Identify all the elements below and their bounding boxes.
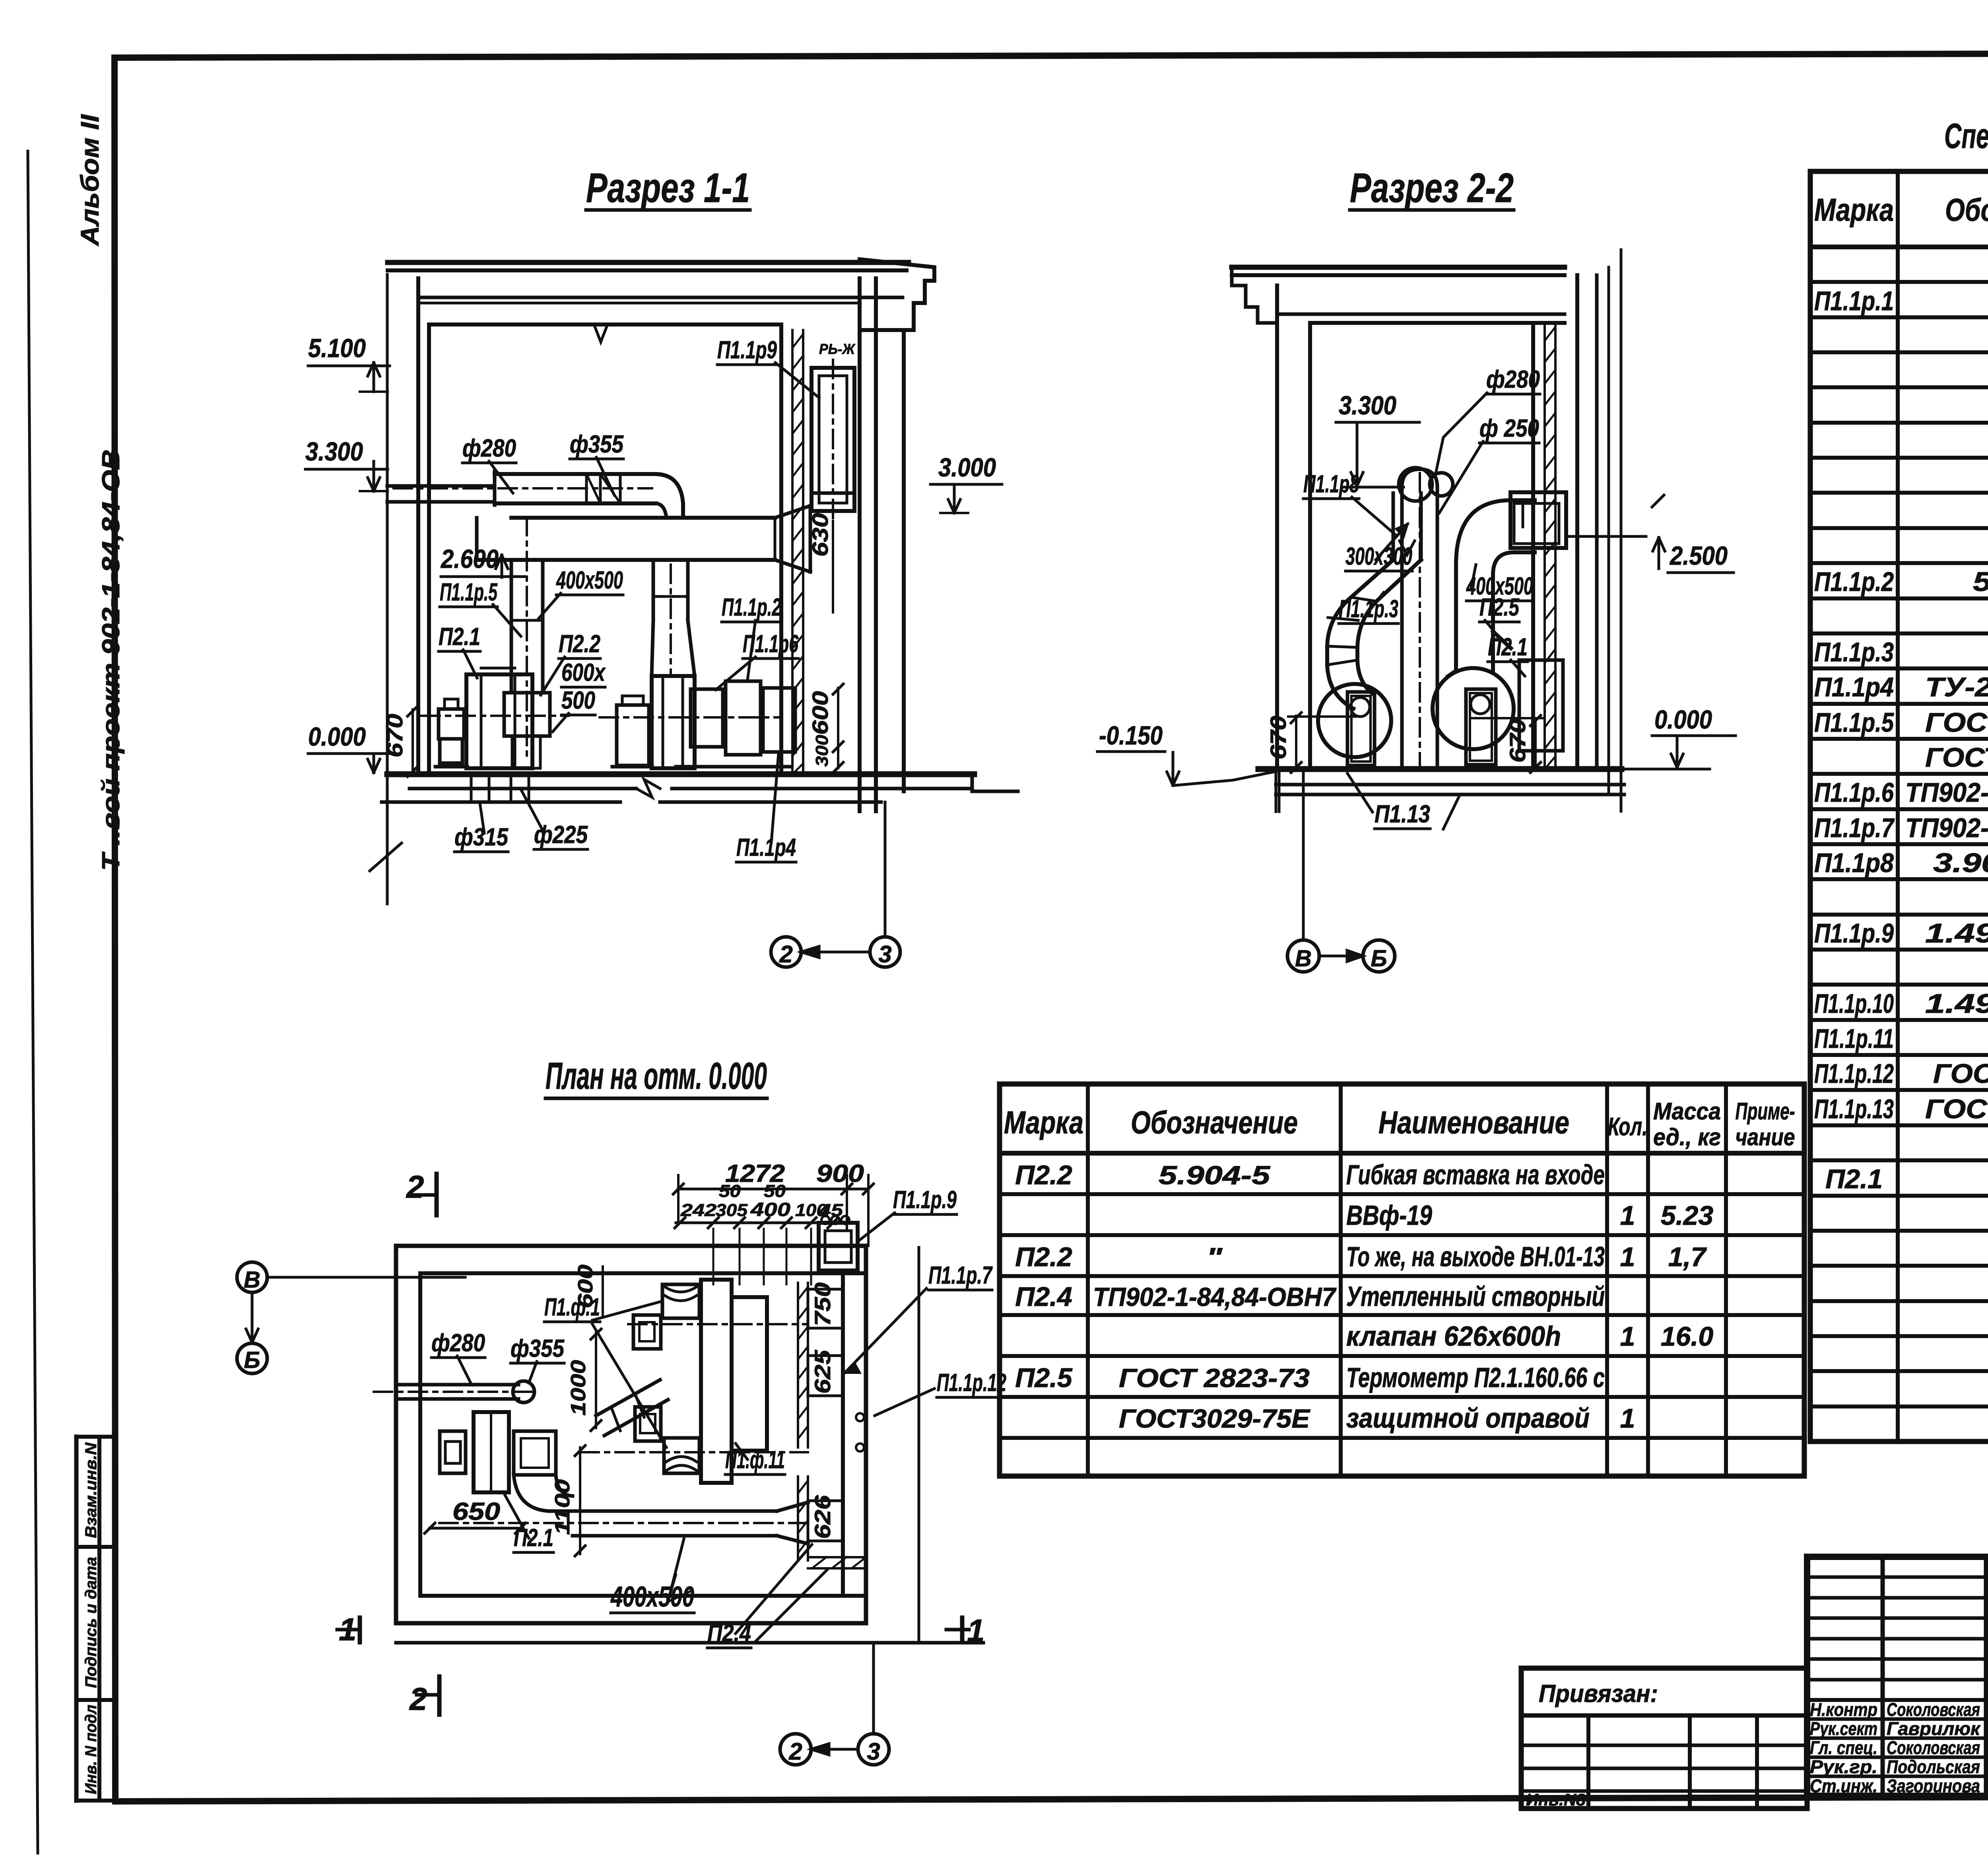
svg-text:защитной оправой: защитной оправой xyxy=(1346,1403,1590,1434)
plan axis circles V B xyxy=(237,1262,267,1292)
svg-text:305: 305 xyxy=(716,1201,748,1220)
plan center unit fan wheels xyxy=(662,1284,699,1318)
svg-text:Спецификация вентиляционных: Спецификация вентиляционных установ ж xyxy=(1944,116,1988,155)
svg-text:400х500: 400х500 xyxy=(610,1581,694,1613)
plan left flex box xyxy=(514,1431,556,1475)
svg-text:ед., кг: ед., кг xyxy=(1653,1124,1721,1150)
r2 left S duct band xyxy=(1327,560,1393,709)
svg-text:ф355: ф355 xyxy=(570,431,624,458)
svg-text:П1.1р.5: П1.1р.5 xyxy=(440,579,498,606)
svg-text:П1.1р.10: П1.1р.10 xyxy=(1814,989,1894,1019)
r1 air intake unit P1.1r9 xyxy=(812,368,854,511)
r1 f355 elbow xyxy=(655,474,683,517)
svg-text:П1.1р.3: П1.1р.3 xyxy=(1339,595,1398,623)
title block left grid verticals xyxy=(1881,1557,1885,1796)
svg-text:1000: 1000 xyxy=(567,1360,590,1416)
r1 section circles 2-3 xyxy=(771,937,801,967)
r1 dim 670 left xyxy=(412,709,414,773)
svg-text:Марка: Марка xyxy=(1004,1105,1083,1140)
svg-text:Кол.: Кол. xyxy=(1608,1112,1648,1141)
svg-text:Инв.N8: Инв.N8 xyxy=(1526,1790,1586,1809)
r2 valve box xyxy=(1510,492,1566,548)
r2 left fan scroll xyxy=(1318,684,1391,757)
svg-text:П1.13: П1.13 xyxy=(1375,800,1430,828)
svg-text:16.0: 16.0 xyxy=(1661,1321,1714,1352)
svg-text:5.904-5: 5.904-5 xyxy=(1973,567,1988,597)
svg-text:ТП902-1-84,84-ОВН6: ТП902-1-84,84-ОВН6 xyxy=(1905,777,1988,808)
svg-text:1: 1 xyxy=(1620,1403,1635,1434)
svg-text:3: 3 xyxy=(867,1738,880,1765)
svg-text:2.600: 2.600 xyxy=(440,544,499,573)
middle table grid xyxy=(997,1084,1002,1476)
svg-text:670: 670 xyxy=(1266,716,1291,760)
svg-text:П1.1р9: П1.1р9 xyxy=(717,336,777,364)
svg-text:1.494-27 В.7: 1.494-27 В.7 xyxy=(1925,918,1988,948)
r1 riser to fan P1.1r.1 xyxy=(652,560,655,620)
svg-text:400: 400 xyxy=(750,1199,791,1220)
r2 right wall xyxy=(1531,323,1535,769)
r1 duct f280 pipe xyxy=(387,484,495,488)
title block left grid horizontals xyxy=(1807,1575,1988,1579)
svg-text:Приме-: Приме- xyxy=(1736,1098,1795,1125)
svg-text:Термометр П2.1.160.66 с: Термометр П2.1.160.66 с xyxy=(1346,1362,1605,1393)
svg-text:670: 670 xyxy=(1505,719,1530,763)
plan top dim row 1 xyxy=(678,1188,868,1191)
r2 right fan motor xyxy=(1466,689,1496,765)
plan section line vertical right xyxy=(918,1247,920,1643)
svg-text:В: В xyxy=(1295,946,1312,971)
plan dim 1000 xyxy=(595,1331,597,1428)
r1 vertical duct joint ticks xyxy=(511,619,543,622)
r1 fan unit P1.1r.1 housing xyxy=(652,676,695,768)
svg-text:П1.1р.13: П1.1р.13 xyxy=(1814,1094,1894,1124)
plan diagonal duct xyxy=(596,1380,668,1436)
svg-text:П1.1р.11: П1.1р.11 xyxy=(1814,1024,1894,1054)
svg-text:5.23: 5.23 xyxy=(1661,1201,1714,1231)
svg-text:П1.1р.3: П1.1р.3 xyxy=(1814,637,1894,667)
r2 dim 670 left xyxy=(1295,716,1297,769)
r1 korob duct P1.1r6 xyxy=(511,516,775,520)
svg-text:1,7: 1,7 xyxy=(1668,1242,1707,1272)
svg-text:П2.1: П2.1 xyxy=(514,1524,553,1552)
r1 dim 600/300 right xyxy=(837,688,839,768)
svg-text:ф225: ф225 xyxy=(534,821,588,849)
plan center unit motors xyxy=(633,1315,661,1349)
svg-text:50: 50 xyxy=(719,1181,741,1201)
title block outer xyxy=(1807,1557,1988,1796)
plan left unit motor xyxy=(440,1431,466,1473)
svg-text:-0.150: -0.150 xyxy=(1099,721,1163,750)
svg-text:750: 750 xyxy=(810,1282,835,1326)
svg-text:2.500: 2.500 xyxy=(1669,541,1728,570)
r2 floor xyxy=(1258,766,1621,772)
r2 right duct 400x500 elbow xyxy=(1456,500,1535,670)
spec table grid xyxy=(1808,171,1813,1441)
svg-text:Инв. N подл: Инв. N подл xyxy=(82,1705,100,1794)
svg-text:0.000: 0.000 xyxy=(1654,705,1712,734)
svg-text:Альбом II: Альбом II xyxy=(76,114,104,247)
svg-text:600х: 600х xyxy=(561,659,606,686)
plan air intake P1.1r9 xyxy=(819,1223,858,1270)
svg-text:П1.1р.7: П1.1р.7 xyxy=(928,1262,993,1289)
svg-text:Взам.инв.N: Взам.инв.N xyxy=(82,1442,100,1538)
r1 floor pipe stubs f315 f225 xyxy=(471,774,489,802)
svg-text:Разрез 1-1: Разрез 1-1 xyxy=(586,165,750,211)
r1 vertical duct 400x500 xyxy=(510,560,513,693)
r2 left wall xyxy=(1275,286,1279,769)
sheet outer paper edge left xyxy=(28,151,38,1853)
r1 korob transition to wall xyxy=(775,506,810,572)
svg-text:2: 2 xyxy=(779,941,792,967)
plan section circles 2-3 bottom xyxy=(780,1734,811,1765)
r1 line from circle3 to floor xyxy=(884,802,887,937)
svg-text:Ст.инж.: Ст.инж. xyxy=(1810,1776,1877,1796)
r1 right cornice xyxy=(860,259,934,330)
svg-text:П1.1р8: П1.1р8 xyxy=(1814,848,1894,878)
svg-text:П2.1: П2.1 xyxy=(1825,1164,1883,1194)
svg-text:300: 300 xyxy=(812,734,832,767)
svg-text:650: 650 xyxy=(452,1498,500,1525)
plan elbow down to duct xyxy=(514,1475,549,1511)
plan left unit fan xyxy=(474,1412,509,1492)
svg-text:1.494-27 В.1: 1.494-27 В.1 xyxy=(1925,989,1988,1019)
svg-text:3.300: 3.300 xyxy=(305,437,363,466)
svg-text:3.904-18 В1: 3.904-18 В1 xyxy=(1933,848,1988,878)
svg-text:П2.5: П2.5 xyxy=(1015,1363,1073,1393)
svg-text:Разрез 2-2: Разрез 2-2 xyxy=(1350,165,1514,211)
svg-text:3.300: 3.300 xyxy=(1339,390,1396,420)
privyazan box xyxy=(1521,1668,1807,1809)
svg-text:П1.1р4: П1.1р4 xyxy=(1814,672,1894,702)
svg-text:Гл. спец.: Гл. спец. xyxy=(1810,1737,1877,1758)
svg-text:П2.1: П2.1 xyxy=(439,623,480,651)
svg-text:Обозначение: Обозначение xyxy=(1131,1105,1298,1140)
svg-text:РЬ-Ж: РЬ-Ж xyxy=(819,341,856,357)
r2 left fan motor xyxy=(1347,692,1375,765)
svg-text:Загоринова: Загоринова xyxy=(1887,1776,1980,1796)
svg-text:П2.4: П2.4 xyxy=(1015,1282,1072,1312)
plan wall openings 750 625 626 xyxy=(808,1289,843,1328)
svg-text:ф280: ф280 xyxy=(462,435,516,462)
svg-text:Масса: Масса xyxy=(1653,1098,1721,1125)
svg-text:Наименование: Наименование xyxy=(1378,1105,1569,1140)
r2 dim 670 right xyxy=(1534,719,1537,769)
r2 axis circles V-B xyxy=(1287,940,1319,972)
frame border bottom xyxy=(115,1796,1988,1801)
svg-text:Утепленный створный: Утепленный створный xyxy=(1346,1281,1605,1312)
r1 left wall columns xyxy=(416,278,420,774)
svg-text:П1.ф.1: П1.ф.1 xyxy=(544,1294,600,1321)
plan line circle3 up xyxy=(872,1643,875,1734)
plan outer walls xyxy=(396,1244,866,1248)
svg-text:Рук.сект: Рук.сект xyxy=(1810,1718,1877,1739)
svg-text:П1.1р.5: П1.1р.5 xyxy=(1814,707,1894,738)
plan lower exterior line xyxy=(396,1641,983,1645)
svg-text:ВВф-19: ВВф-19 xyxy=(1346,1200,1432,1231)
r1 right wall xyxy=(779,324,783,774)
svg-text:2: 2 xyxy=(409,1681,427,1717)
svg-text:П1.1р.6: П1.1р.6 xyxy=(1814,777,1894,808)
svg-text:ф280: ф280 xyxy=(431,1329,485,1357)
svg-text:В: В xyxy=(244,1267,260,1293)
r2 line circle V to floor xyxy=(1302,769,1305,940)
svg-text:Соколовская: Соколовская xyxy=(1887,1737,1980,1758)
svg-text:ГОСТ 8509-72*: ГОСТ 8509-72* xyxy=(1925,1094,1988,1124)
r1 fan unit P2.1 motor xyxy=(439,709,464,739)
r1 left dimension line xyxy=(386,274,389,904)
r2 roof slab xyxy=(1232,265,1565,270)
svg-text:П1.1р4: П1.1р4 xyxy=(736,834,796,861)
svg-text:П2.5: П2.5 xyxy=(1479,594,1520,621)
r2 branch duct P1.1r8 xyxy=(1392,493,1395,560)
svg-text:Гибкая вставка на входе: Гибкая вставка на входе xyxy=(1346,1159,1605,1190)
svg-text:П1.1р.9: П1.1р.9 xyxy=(893,1186,957,1214)
r1 flex insert box P2.2 xyxy=(504,693,550,736)
svg-text:Подольская: Подольская xyxy=(1887,1756,1980,1777)
plan centerlines xyxy=(628,1323,808,1325)
svg-text:П1.1р.12: П1.1р.12 xyxy=(1814,1059,1894,1089)
svg-text:Гаврилюк: Гаврилюк xyxy=(1887,1718,1981,1739)
svg-text:Марка: Марка xyxy=(1814,192,1894,227)
svg-text:": " xyxy=(1206,1242,1223,1272)
left margin stamp column table xyxy=(74,1437,79,1801)
svg-text:чание: чание xyxy=(1736,1124,1795,1150)
svg-text:500: 500 xyxy=(561,687,595,714)
svg-text:Привязан:: Привязан: xyxy=(1539,1680,1658,1708)
svg-text:П2.2: П2.2 xyxy=(1015,1160,1072,1190)
svg-text:1: 1 xyxy=(1620,1242,1635,1272)
svg-text:ф 250: ф 250 xyxy=(1479,415,1539,442)
svg-text:ф315: ф315 xyxy=(454,824,509,851)
svg-text:ф355: ф355 xyxy=(511,1335,565,1362)
r2 pipe top circles xyxy=(1399,468,1432,501)
svg-text:50: 50 xyxy=(764,1181,786,1201)
plan top dim row 2 xyxy=(676,1222,835,1224)
svg-text:1100: 1100 xyxy=(551,1479,574,1535)
r1 duct f355 xyxy=(495,472,655,476)
svg-text:Соколовская: Соколовская xyxy=(1887,1699,1980,1720)
svg-text:0.000: 0.000 xyxy=(308,722,366,751)
svg-text:ТУ-22-4334-78: ТУ-22-4334-78 xyxy=(1925,672,1988,702)
svg-text:ГОСТ3029-75Е: ГОСТ3029-75Е xyxy=(1119,1404,1310,1433)
svg-text:ГОСТ 3029-75Е: ГОСТ 3029-75Е xyxy=(1925,742,1988,773)
svg-text:П1.1р.1: П1.1р.1 xyxy=(1814,286,1894,316)
r2 right fan scroll xyxy=(1433,668,1514,749)
svg-text:Подпись и дата: Подпись и дата xyxy=(82,1557,100,1688)
svg-text:клапан 626х600h: клапан 626х600h xyxy=(1346,1321,1561,1352)
plan dim 1100 xyxy=(579,1447,581,1554)
plan supply pipe left xyxy=(396,1383,518,1387)
svg-text:5.100: 5.100 xyxy=(308,333,366,363)
svg-text:Б: Б xyxy=(244,1347,260,1373)
r1 fan unit P1.1r.1 motor xyxy=(617,705,649,765)
svg-text:Б: Б xyxy=(1371,946,1387,971)
svg-text:П1.1р.2: П1.1р.2 xyxy=(1814,567,1894,597)
svg-text:План на отм. 0.000: План на отм. 0.000 xyxy=(546,1055,767,1097)
svg-text:ГОСТ 2823-73*: ГОСТ 2823-73* xyxy=(1925,707,1988,738)
svg-text:Т ..вой проект 902-1-84,84-О: Т ..вой проект 902-1-84,84-ОВ xyxy=(97,449,125,871)
svg-text:ТП902-1-84,84-ОВН7: ТП902-1-84,84-ОВН7 xyxy=(1093,1282,1337,1311)
r1 dim 630 vertical xyxy=(832,521,834,612)
svg-text:П1.ф.11: П1.ф.11 xyxy=(725,1446,785,1474)
r2 dim 2.500 xyxy=(1566,535,1646,538)
r2 left cornice profile xyxy=(1232,267,1277,323)
svg-text:670: 670 xyxy=(382,714,407,758)
svg-text:П1.1р.12: П1.1р.12 xyxy=(937,1369,1006,1397)
svg-text:П1.1р.9: П1.1р.9 xyxy=(1814,918,1894,948)
plan bottom duct 400x500 xyxy=(549,1509,777,1513)
svg-text:П2.1: П2.1 xyxy=(1488,633,1528,661)
svg-text:630: 630 xyxy=(808,513,833,557)
r1 roof slab xyxy=(388,260,909,265)
svg-text:ф280: ф280 xyxy=(1486,366,1540,393)
r1 floor xyxy=(387,771,974,777)
svg-text:45: 45 xyxy=(819,1201,843,1220)
plan duct transition to opening 626 xyxy=(777,1502,808,1544)
plan dim 600 xyxy=(602,1267,604,1316)
svg-text:Н.контр: Н.контр xyxy=(1810,1699,1877,1720)
svg-text:2: 2 xyxy=(406,1169,424,1204)
plan top dim guides xyxy=(712,1229,714,1284)
r1 roof v-notch xyxy=(594,324,608,342)
svg-text:2: 2 xyxy=(788,1738,802,1765)
r2 vertical pipe f250 xyxy=(1400,487,1404,767)
svg-text:626: 626 xyxy=(810,1495,835,1539)
svg-text:П2.2: П2.2 xyxy=(559,630,600,658)
svg-text:242: 242 xyxy=(680,1201,717,1220)
svg-text:3.000: 3.000 xyxy=(938,453,996,482)
svg-text:П1.1р.2: П1.1р.2 xyxy=(722,594,781,621)
svg-text:П1.1р.7: П1.1р.7 xyxy=(1814,813,1895,843)
frame border left xyxy=(115,58,115,1801)
svg-text:Обозначение: Обозначение xyxy=(1945,192,1988,227)
svg-text:600: 600 xyxy=(808,691,833,735)
svg-text:П1.1р6: П1.1р6 xyxy=(743,630,798,658)
svg-text:3: 3 xyxy=(878,941,891,967)
svg-text:П1.1р8: П1.1р8 xyxy=(1303,470,1359,498)
svg-text:То же, на выходе ВН.01-13: То же, на выходе ВН.01-13 xyxy=(1346,1241,1605,1272)
svg-text:П2.2: П2.2 xyxy=(1015,1242,1072,1272)
svg-text:Рук.гр.: Рук.гр. xyxy=(1810,1756,1877,1777)
svg-text:ГОСТ 2823-73: ГОСТ 2823-73 xyxy=(1119,1363,1310,1393)
svg-text:625: 625 xyxy=(810,1350,835,1394)
svg-text:400х500: 400х500 xyxy=(556,567,623,594)
plan center unit column xyxy=(701,1280,732,1483)
frame border top xyxy=(115,52,1988,58)
svg-text:900: 900 xyxy=(816,1160,864,1187)
svg-text:ГОСТ 3062-80: ГОСТ 3062-80 xyxy=(1933,1059,1988,1089)
plan right partition hatch xyxy=(797,1283,799,1447)
svg-text:5.904-5: 5.904-5 xyxy=(1159,1160,1271,1190)
svg-text:1: 1 xyxy=(1620,1201,1635,1231)
svg-text:1: 1 xyxy=(1620,1321,1635,1352)
svg-text:ТП902-1-84,84-ОВН1: ТП902-1-84,84-ОВН1 xyxy=(1905,813,1988,843)
r2 right dimension line xyxy=(1620,250,1623,811)
r1 heater chain boxes xyxy=(691,689,723,747)
r1 fan unit P2.1 housing xyxy=(466,674,532,768)
